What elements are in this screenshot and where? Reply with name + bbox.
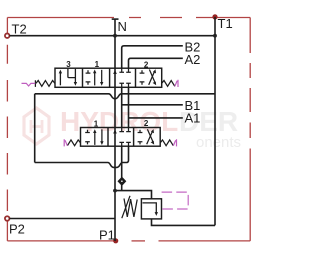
wire B2 (122, 46, 183, 68)
junction dot T1 tee (213, 34, 217, 38)
wire T1 vertical (214, 17, 216, 226)
svg-text:N: N (118, 19, 127, 34)
relief valve RV1 body (141, 199, 161, 219)
valve V1 cell2 blocked port top (86, 70, 104, 86)
valve V1 cell1 float path (68, 69, 76, 83)
wire A2 (129, 58, 183, 68)
relief valve RV1 pilot line magenta dashed (162, 192, 189, 209)
svg-text:1: 1 (95, 60, 100, 69)
junction dot N tee (113, 34, 117, 38)
valve V1 cell3 blocked stubs top (119, 68, 130, 72)
valve V1 cell2 blocked port bottom (86, 82, 91, 85)
junction dot relief tee (113, 189, 117, 193)
valve V2 right spring (160, 140, 173, 146)
valve V1 cell2 up arrow (94, 72, 96, 86)
valve V2 cell1 up arrow (94, 131, 96, 145)
wire B1 vertical with tee (122, 87, 183, 127)
valve V1 cell4 blocked port top (140, 69, 157, 85)
valve V2 body (81, 128, 161, 147)
valve V2 cell3 crossed arrows (147, 131, 153, 144)
valve V2 cell2 through arrow on P line (113, 128, 131, 147)
valve V1 left spring (35, 80, 55, 87)
port P1 node dot (113, 238, 118, 243)
valve V2 cell2 blocked stubs bottom (119, 142, 130, 146)
valve V1 cell2 down arrow (101, 70, 103, 84)
svg-text:P1: P1 (99, 228, 115, 243)
relief valve RV1 flow arrow (143, 203, 159, 216)
valve V2 cell1 blocked port bottom (85, 142, 90, 145)
svg-text:2: 2 (144, 119, 149, 128)
wire bridge line valve2 tank with hop over P lines (35, 146, 129, 167)
check valve CV1 diamond (119, 178, 126, 185)
svg-text:P2: P2 (9, 222, 25, 237)
valve V2 cell1 blocked port top (85, 129, 103, 145)
valve V1 left spring magenta tail (22, 83, 36, 86)
wire A1 vertical with tee (129, 87, 183, 127)
valve V2 cell2 blocked stubs top (119, 128, 130, 132)
port N plug cap (112, 18, 119, 20)
svg-text:T1: T1 (218, 16, 233, 31)
svg-text:A2: A2 (185, 52, 201, 67)
valve V2 left spring magenta tail (64, 139, 67, 146)
relief valve RV1 adjust arrow (122, 196, 130, 218)
svg-text:2: 2 (144, 60, 149, 69)
red boundary top border (7, 18, 250, 241)
wire check valve feed (121, 146, 123, 190)
svg-text:A1: A1 (185, 111, 201, 126)
valve V2 cell1 down arrow (101, 129, 103, 143)
watermark logo hexagon left (24, 108, 49, 144)
port T2 node circle (5, 33, 10, 38)
svg-text:T2: T2 (12, 22, 27, 37)
wire relief inlet (115, 191, 152, 199)
valve V1 cell4 blocked port bottom (140, 82, 145, 85)
valve V1 cell1 up arrow (59, 69, 77, 86)
valve V1 body (55, 68, 162, 87)
valve V1 right spring magenta tail (175, 80, 178, 87)
red boundary right border (249, 18, 251, 54)
svg-text:1: 1 (94, 120, 99, 129)
red boundary left border (6, 222, 8, 241)
valve V2 left spring (67, 140, 80, 146)
valve V2 right spring magenta tail (173, 139, 176, 146)
wire left tank riser (34, 94, 36, 163)
wire P2 line (9, 218, 115, 220)
wire N vertical main P line (114, 19, 116, 241)
wire T2 to T1 horizontal (9, 35, 215, 37)
check valve CV1 ball (121, 180, 123, 182)
red boundary bottom border (159, 240, 251, 242)
wire tank gallery under valve 1 with hop over P line (35, 94, 215, 99)
port T1 node dot (212, 14, 217, 19)
valve V1 cell4 crossed arrows (149, 71, 155, 85)
wire relief outlet to T1 (152, 219, 216, 226)
svg-text:onents: onents (196, 134, 241, 151)
valve V1 cell3 through arrow on P line (113, 68, 131, 87)
valve V1 right spring (162, 81, 175, 87)
port P2 node circle (5, 216, 10, 221)
valve V2 cell3 blocked port bottom (138, 142, 143, 145)
valve V1 cell3 blocked stubs bottom (119, 83, 130, 87)
relief valve RV1 spring (124, 199, 137, 217)
svg-text:3: 3 (66, 60, 71, 69)
valve V2 cell3 blocked port top (138, 129, 155, 145)
